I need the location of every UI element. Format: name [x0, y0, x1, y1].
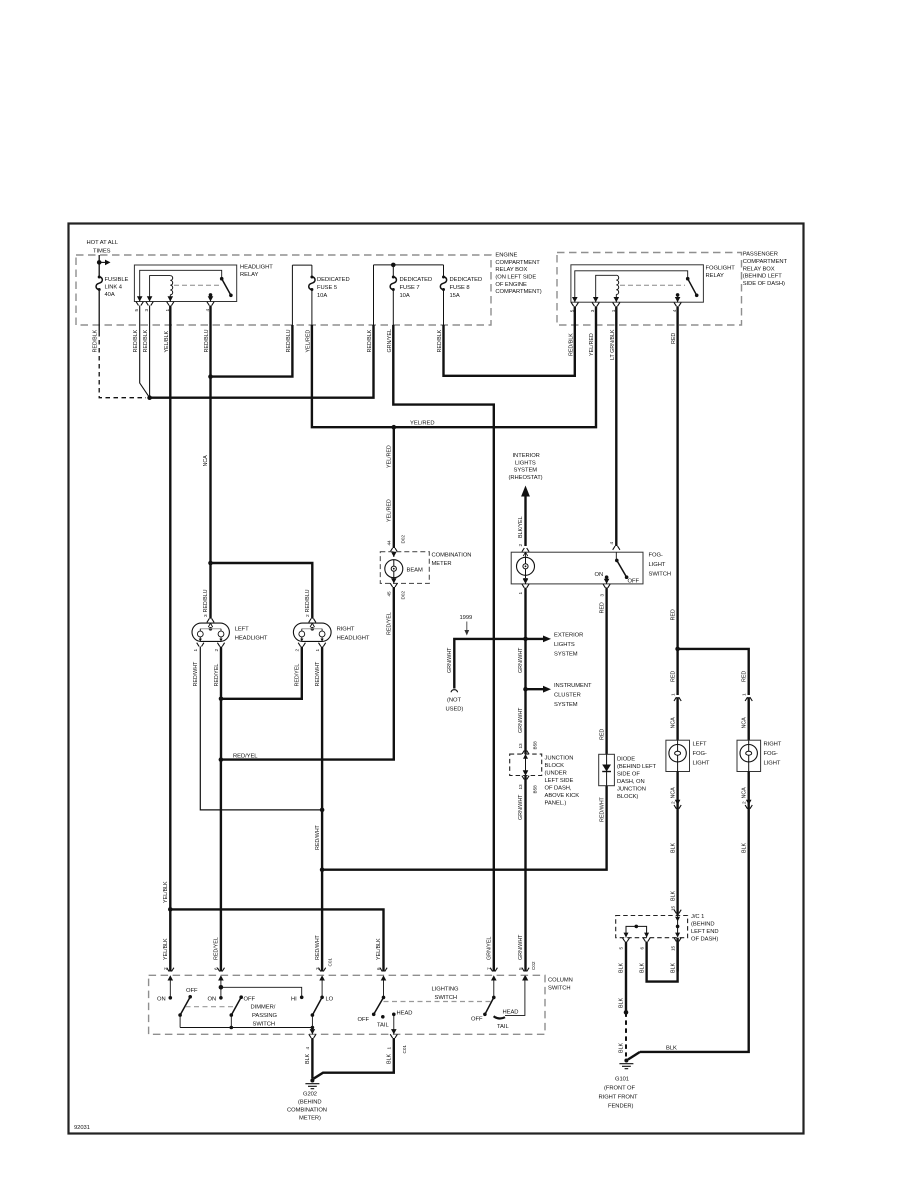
svg-text:BLK: BLK — [619, 963, 625, 973]
wire link to HI contact — [221, 987, 302, 997]
svg-text:DEDICATED: DEDICATED — [317, 277, 350, 283]
node junction exterior lights — [523, 637, 528, 642]
svg-text:HEAD: HEAD — [503, 1010, 519, 1016]
svg-text:2: 2 — [163, 967, 168, 970]
J/C1 internal jumper pins 5-6 — [626, 926, 647, 937]
svg-text:GRN/YEL: GRN/YEL — [387, 329, 393, 352]
svg-text:1: 1 — [165, 309, 170, 312]
svg-text:LIGHTS: LIGHTS — [554, 642, 575, 648]
wire YEL/RED fuse5 to foglight relay pin3 — [312, 306, 596, 427]
combination meter pin 45 D02 — [393, 578, 395, 584]
left headlight — [192, 623, 229, 641]
wire RED labels above fog pins — [670, 671, 747, 682]
wire RED/YEL down to column switch pin 6 — [220, 760, 222, 972]
tail-head bridge contact — [494, 1016, 505, 1018]
svg-text:DEDICATED: DEDICATED — [400, 277, 433, 283]
svg-text:BLK/YEL: BLK/YEL — [518, 516, 524, 538]
svg-text:RED/BLK: RED/BLK — [133, 329, 139, 352]
junction block (dashed) — [510, 754, 542, 775]
J/C 1 (dashed) — [616, 916, 688, 938]
svg-text:FOG-: FOG- — [693, 751, 707, 757]
svg-text:RIGHT: RIGHT — [337, 627, 355, 633]
dimmer sw1: ON contact from pin 2 — [169, 981, 171, 998]
svg-text:2: 2 — [214, 649, 219, 652]
svg-text:15A: 15A — [450, 293, 460, 299]
svg-text:LIGHTS: LIGHTS — [515, 460, 536, 466]
svg-text:FUSE 7: FUSE 7 — [400, 285, 420, 291]
wire RED/WHT branch to fog switch ON contact — [322, 588, 606, 870]
wire NCA left foglight — [676, 697, 678, 740]
svg-text:BLK: BLK — [741, 843, 747, 853]
svg-text:TIMES: TIMES — [93, 249, 111, 255]
svg-text:CLUSTER: CLUSTER — [554, 693, 581, 699]
left foglight pin 2 — [670, 787, 676, 799]
svg-text:FOG-: FOG- — [764, 751, 778, 757]
svg-text:40A: 40A — [105, 292, 115, 298]
svg-text:RED: RED — [670, 609, 676, 620]
svg-text:FOGLIGHT: FOGLIGHT — [706, 266, 736, 272]
svg-text:ON: ON — [595, 572, 604, 578]
svg-text:15: 15 — [670, 905, 675, 911]
svg-text:HEADLIGHT: HEADLIGHT — [235, 636, 268, 642]
headlight relay pins 5 3 1 4 — [137, 296, 143, 301]
dedicated fuse 7 / fuse 8 bridge — [374, 265, 444, 325]
svg-text:DASH, ON: DASH, ON — [617, 779, 645, 785]
dedicated fuse 7 — [390, 276, 396, 292]
coil foglight relay — [616, 275, 618, 294]
svg-text:OFF: OFF — [471, 1017, 483, 1023]
svg-text:C01: C01 — [402, 1045, 407, 1054]
junction block pin 13 B58 top — [522, 751, 529, 755]
svg-text:1: 1 — [670, 693, 675, 696]
node RED branch to right foglight — [675, 647, 680, 652]
left headlight pin 3 — [207, 619, 214, 623]
svg-text:C01: C01 — [328, 958, 333, 967]
svg-text:HI: HI — [291, 997, 297, 1003]
svg-text:YEL/BLK: YEL/BLK — [164, 331, 170, 353]
svg-text:RED/BLU: RED/BLU — [286, 329, 292, 352]
svg-text:BLK: BLK — [639, 963, 645, 973]
svg-text:3: 3 — [590, 309, 595, 312]
wire RED foglight relay pin4 down — [676, 306, 678, 695]
wire YEL/BLK branch to lighting switch pin 6 — [170, 909, 383, 971]
dedicated fuse 5 assembly — [292, 265, 312, 325]
svg-text:1: 1 — [315, 649, 320, 652]
node junction YEL/BLK — [168, 907, 173, 912]
coil headlight relay — [170, 276, 172, 295]
svg-text:G101: G101 — [615, 1077, 629, 1083]
svg-text:FUSE 5: FUSE 5 — [317, 285, 337, 291]
svg-text:LIGHT: LIGHT — [764, 761, 781, 767]
svg-text:5: 5 — [569, 309, 574, 312]
svg-text:YEL/RED: YEL/RED — [305, 330, 311, 353]
svg-text:92031: 92031 — [74, 1125, 90, 1131]
ground G101 — [619, 1059, 633, 1069]
wire YEL/RED junction to combination meter — [393, 427, 395, 548]
wire labels row under engine box — [93, 329, 677, 360]
svg-text:D02: D02 — [401, 535, 406, 544]
svg-text:DEDICATED: DEDICATED — [450, 277, 483, 283]
wire GRN/WHT fog switch pin1 down — [524, 588, 526, 972]
fog switch lever — [615, 552, 617, 559]
svg-text:OF ENGINE: OF ENGINE — [495, 282, 527, 288]
svg-text:SWITCH: SWITCH — [253, 1022, 276, 1028]
svg-text:INTERIOR: INTERIOR — [513, 453, 540, 459]
svg-text:GRN/WHT: GRN/WHT — [518, 934, 524, 960]
node branch arrow — [97, 260, 102, 265]
svg-text:1: 1 — [741, 693, 746, 696]
svg-text:RED: RED — [599, 602, 605, 613]
svg-text:RELAY BOX: RELAY BOX — [495, 267, 527, 273]
svg-text:RELAY: RELAY — [240, 272, 259, 278]
border frame — [69, 224, 804, 1134]
svg-text:45: 45 — [387, 591, 392, 597]
mechanical link lighting — [384, 1001, 494, 1003]
wire RED/BLK fuse8 to foglight relay pin5 — [444, 306, 575, 376]
svg-text:COMPARTMENT: COMPARTMENT — [743, 259, 788, 265]
svg-text:JUNCTION: JUNCTION — [617, 787, 646, 793]
svg-text:SYSTEM: SYSTEM — [514, 468, 538, 474]
junction block pin 13 B58 bottom — [523, 770, 529, 775]
svg-text:LIGHTING: LIGHTING — [432, 987, 460, 993]
svg-text:(ON LEFT SIDE: (ON LEFT SIDE — [495, 275, 536, 281]
svg-text:SWITCH: SWITCH — [649, 572, 672, 578]
svg-text:2: 2 — [741, 801, 746, 804]
svg-text:LIGHT: LIGHT — [693, 761, 710, 767]
svg-text:(UNDER: (UNDER — [545, 771, 567, 777]
svg-text:RELAY: RELAY — [706, 273, 725, 279]
svg-text:3: 3 — [599, 594, 604, 597]
svg-text:LEFT: LEFT — [235, 627, 249, 633]
svg-text:METER): METER) — [299, 1116, 321, 1122]
J/C 1 pin 15 top — [674, 910, 681, 914]
svg-text:(BEHIND LEFT: (BEHIND LEFT — [743, 274, 783, 280]
svg-text:SIDE OF DASH): SIDE OF DASH) — [743, 281, 785, 287]
wire labels headlight drops — [193, 455, 321, 687]
J/C1 internal pin15 — [677, 916, 679, 935]
svg-text:J/C 1: J/C 1 — [691, 914, 704, 920]
svg-text:RED/WHT: RED/WHT — [315, 661, 321, 687]
svg-text:RED: RED — [599, 729, 605, 740]
node junction RED/YEL headlights — [219, 697, 224, 702]
column switch connector cups at top — [167, 968, 174, 972]
svg-text:4: 4 — [305, 1047, 310, 1050]
arrow INSTRUMENT CLUSTER SYSTEM — [526, 688, 544, 690]
svg-text:5: 5 — [619, 947, 624, 950]
svg-text:1: 1 — [387, 1047, 392, 1050]
svg-text:5: 5 — [134, 309, 139, 312]
svg-text:BLK: BLK — [619, 998, 625, 1008]
svg-text:B58: B58 — [532, 741, 537, 750]
wire RED/BLU relay pin4 down to left headlight — [209, 306, 211, 619]
node junction RED/WHT — [320, 808, 325, 813]
node junction RED/BLK — [147, 395, 152, 400]
svg-text:BLK: BLK — [305, 1054, 311, 1064]
svg-text:OF DASH,: OF DASH, — [545, 786, 572, 792]
svg-text:SYSTEM: SYSTEM — [554, 652, 578, 658]
svg-text:BLK: BLK — [666, 1046, 677, 1052]
foglight relay U2 — [571, 265, 704, 302]
svg-text:OF DASH): OF DASH) — [691, 937, 718, 943]
svg-text:YEL/RED: YEL/RED — [589, 333, 595, 356]
svg-text:OFF: OFF — [244, 997, 256, 1003]
svg-text:2: 2 — [518, 544, 523, 547]
ground G202 — [305, 1079, 319, 1089]
svg-text:HOT AT ALL: HOT AT ALL — [87, 240, 119, 246]
svg-text:PANEL.): PANEL.) — [545, 801, 567, 807]
wire LT GRN/BLK foglight relay pin1 to fog switch — [615, 306, 617, 546]
wire BLK pin1 to G202 — [314, 1038, 394, 1079]
svg-text:RED/WHT: RED/WHT — [193, 661, 199, 687]
svg-text:BLK: BLK — [670, 843, 676, 853]
svg-text:LT GRN/BLK: LT GRN/BLK — [610, 329, 616, 360]
dedicated fuse 8 — [440, 276, 446, 292]
node junction YEL/RED — [392, 425, 397, 430]
svg-text:HEADLIGHT: HEADLIGHT — [240, 265, 273, 271]
svg-text:ABOVE KICK: ABOVE KICK — [545, 793, 580, 799]
svg-text:C02: C02 — [531, 961, 536, 970]
svg-text:COMBINATION: COMBINATION — [287, 1108, 327, 1114]
wire RED/WHT left headlight pin1 — [200, 647, 322, 810]
arrow EXTERIOR LIGHTS SYSTEM — [526, 638, 544, 640]
wire RED to right foglight — [678, 649, 749, 695]
svg-text:RED/BLU: RED/BLU — [204, 329, 210, 352]
svg-text:OFF: OFF — [358, 1017, 370, 1023]
svg-text:JUNCTION: JUNCTION — [545, 756, 574, 762]
svg-text:LEFT: LEFT — [693, 742, 707, 748]
svg-text:OFF: OFF — [186, 988, 198, 994]
engine compartment relay box (dashed) — [76, 255, 491, 325]
svg-text:BLK: BLK — [619, 1043, 625, 1053]
column switch exits pins 4 / 1 C01 — [310, 1029, 316, 1034]
foglight relay internals — [575, 271, 688, 302]
svg-text:GRN/WHT: GRN/WHT — [518, 794, 524, 820]
svg-text:1: 1 — [518, 592, 523, 595]
svg-text:GRN/WHT: GRN/WHT — [518, 707, 524, 733]
svg-text:10A: 10A — [400, 293, 410, 299]
wire NCA right foglight — [748, 697, 750, 740]
svg-text:RED/WHT: RED/WHT — [315, 934, 321, 960]
svg-text:RED/WHT: RED/WHT — [599, 796, 605, 822]
node HOT AT ALL TIMES — [87, 240, 119, 255]
svg-text:RED/YEL: RED/YEL — [295, 664, 301, 687]
svg-text:COMPARTMENT): COMPARTMENT) — [495, 289, 541, 295]
svg-text:GRN/WHT: GRN/WHT — [447, 647, 453, 673]
svg-text:RELAY BOX: RELAY BOX — [743, 266, 775, 272]
svg-text:HEAD: HEAD — [397, 1011, 413, 1017]
svg-text:LEFT END: LEFT END — [691, 929, 719, 935]
fog switch ON contact — [605, 575, 609, 579]
svg-text:HEADLIGHT: HEADLIGHT — [337, 636, 370, 642]
svg-text:RED: RED — [671, 333, 677, 344]
svg-text:G202: G202 — [303, 1092, 317, 1098]
svg-text:(RHEOSTAT): (RHEOSTAT) — [509, 475, 543, 481]
svg-text:TAIL: TAIL — [377, 1023, 389, 1029]
svg-text:FOG-: FOG- — [649, 553, 663, 559]
svg-text:YEL/BLK: YEL/BLK — [163, 881, 169, 903]
svg-text:YEL/BLK: YEL/BLK — [163, 938, 169, 960]
svg-text:YEL/RED: YEL/RED — [386, 499, 392, 522]
svg-text:BLOCK): BLOCK) — [617, 794, 638, 800]
svg-text:BEAM: BEAM — [407, 568, 423, 574]
fusible link 4 wire — [98, 255, 100, 276]
svg-text:FENDER): FENDER) — [608, 1104, 634, 1110]
svg-text:15: 15 — [670, 945, 675, 951]
svg-text:YEL/BLK: YEL/BLK — [376, 938, 382, 960]
svg-text:RED/BLK: RED/BLK — [568, 333, 574, 356]
svg-text:LINK 4: LINK 4 — [105, 285, 123, 291]
svg-text:SWITCH: SWITCH — [548, 986, 571, 992]
svg-text:NCA: NCA — [670, 717, 676, 729]
fog switch pins 1,3 — [523, 579, 529, 584]
dimmer sw2: passing — [220, 981, 222, 998]
svg-text:RED/BLK: RED/BLK — [93, 329, 99, 352]
passenger compartment relay box (dashed) — [557, 253, 742, 326]
lighting switch sec1 — [383, 981, 385, 998]
svg-text:1: 1 — [611, 309, 616, 312]
J/C1 bottom pins 5,6,15 — [622, 938, 629, 942]
svg-text:NCA: NCA — [741, 787, 747, 799]
right foglight pin 1 — [745, 697, 752, 701]
svg-text:B58: B58 — [532, 785, 537, 794]
svg-text:13: 13 — [518, 743, 523, 749]
svg-text:RED/YEL: RED/YEL — [233, 753, 258, 759]
right foglight pin 2 — [741, 787, 747, 799]
left foglight pin 1 — [674, 697, 681, 701]
lamp in fog switch — [523, 552, 527, 557]
mechanical link dimmer — [186, 1006, 236, 1008]
svg-text:RED/BLK: RED/BLK — [437, 329, 443, 352]
svg-text:YEL/RED: YEL/RED — [386, 445, 392, 468]
lighting switch sec2 — [493, 981, 495, 998]
svg-text:RIGHT: RIGHT — [764, 742, 782, 748]
wire BLK right fog to ground junction — [628, 1052, 640, 1060]
svg-text:GRN/WHT: GRN/WHT — [518, 647, 524, 673]
interior lights system arrow — [509, 453, 543, 481]
node junction RED/WHT to fog switch net — [320, 867, 325, 872]
svg-text:4: 4 — [609, 542, 614, 545]
svg-text:2: 2 — [670, 801, 675, 804]
svg-text:YEL/RED: YEL/RED — [410, 421, 434, 427]
wire RED/WHT right headlight pin1 down — [321, 647, 323, 972]
svg-text:4: 4 — [205, 309, 210, 312]
svg-text:RED/BLK: RED/BLK — [367, 329, 373, 352]
svg-text:COMPARTMENT: COMPARTMENT — [495, 260, 540, 266]
wire RED/BLU from fuse5 left leg — [211, 325, 293, 377]
headlight relay U1 — [134, 265, 236, 302]
wire RED/BLK relay pin5 — [140, 306, 150, 398]
wire BLK pin4 to G202 — [311, 1038, 313, 1079]
svg-text:(FRONT OF: (FRONT OF — [604, 1086, 636, 1092]
svg-text:3: 3 — [203, 614, 208, 617]
svg-text:RED: RED — [670, 671, 676, 682]
svg-text:TAIL: TAIL — [497, 1024, 509, 1030]
combination meter (dashed) — [380, 552, 429, 584]
svg-text:LIGHT: LIGHT — [649, 562, 666, 568]
dimmer sw1 lever — [178, 1013, 182, 1017]
svg-text:DIMMER/: DIMMER/ — [251, 1005, 276, 1011]
svg-text:1: 1 — [193, 649, 198, 652]
node junction RED/BLU — [208, 374, 213, 379]
svg-text:RED/YEL: RED/YEL — [386, 612, 392, 635]
svg-text:METER: METER — [432, 561, 452, 567]
headlight relay internals — [140, 270, 222, 301]
dimmer common bus — [180, 1027, 312, 1029]
svg-text:BLK: BLK — [670, 963, 676, 973]
right headlight pins 2,1 — [298, 643, 305, 647]
svg-text:3: 3 — [144, 309, 149, 312]
right fog light L2 — [737, 740, 761, 771]
svg-text:PASSENGER: PASSENGER — [743, 252, 778, 258]
svg-text:1999: 1999 — [460, 615, 473, 621]
lamp BEAM — [385, 560, 403, 578]
svg-text:PASSING: PASSING — [252, 1013, 278, 1019]
svg-text:6: 6 — [639, 947, 644, 950]
svg-text:USED): USED) — [446, 707, 464, 713]
svg-text:LEFT SIDE: LEFT SIDE — [545, 778, 574, 784]
diode (behind left side of dash, on junction block) — [599, 754, 615, 785]
svg-text:RED/BLU: RED/BLU — [305, 589, 311, 612]
svg-text:4: 4 — [672, 309, 677, 312]
wire YEL/BLK relay pin1 down — [169, 306, 171, 972]
svg-text:(NOT: (NOT — [447, 698, 461, 704]
svg-text:7: 7 — [487, 967, 492, 970]
wire RED/BLK relay pin3 — [149, 306, 151, 398]
wire RED/YEL tie to right headlight — [221, 647, 302, 699]
svg-text:FUSIBLE: FUSIBLE — [105, 277, 129, 283]
fusible link 4 — [96, 276, 102, 292]
svg-text:RED: RED — [741, 671, 747, 682]
svg-text:GRN/YEL: GRN/YEL — [487, 937, 493, 960]
dimmer sw3: HI/LO — [300, 996, 304, 1000]
svg-text:BLK: BLK — [670, 891, 676, 901]
wire RED/BLK bus to fuses 7/8 — [150, 325, 374, 398]
svg-text:ON: ON — [208, 997, 217, 1003]
foglight relay pins 5 3 1 4 — [572, 297, 578, 302]
node junction RED/YEL — [219, 757, 224, 762]
wire GRN/YEL fuse7 to column switch — [393, 325, 494, 972]
svg-text:SYSTEM: SYSTEM — [554, 702, 578, 708]
svg-text:COMBINATION: COMBINATION — [432, 553, 472, 559]
svg-text:D02: D02 — [401, 591, 406, 600]
svg-text:DIODE: DIODE — [617, 757, 635, 763]
svg-text:RED/BLU: RED/BLU — [203, 589, 209, 612]
wire RED/YEL left headlight pin2 — [220, 647, 222, 760]
svg-text:NCA: NCA — [670, 787, 676, 799]
wire RED/YEL meter to headlight high-beam net — [221, 587, 394, 760]
svg-text:LO: LO — [326, 997, 334, 1003]
svg-text:6: 6 — [376, 967, 381, 970]
svg-text:RED/YEL: RED/YEL — [214, 937, 220, 960]
svg-text:5: 5 — [518, 967, 523, 970]
svg-text:OFF: OFF — [628, 579, 640, 585]
svg-text:SIDE OF: SIDE OF — [617, 772, 640, 778]
pin arrows into box — [168, 975, 174, 980]
svg-text:RED/YEL: RED/YEL — [214, 664, 220, 687]
svg-text:FUSE 8: FUSE 8 — [450, 285, 470, 291]
svg-text:RIGHT FRONT: RIGHT FRONT — [599, 1095, 638, 1101]
svg-text:SWITCH: SWITCH — [435, 995, 458, 1001]
svg-text:13: 13 — [518, 784, 523, 790]
svg-text:COLUMN: COLUMN — [548, 978, 573, 984]
right headlight pin 2 — [309, 619, 316, 623]
svg-text:6: 6 — [214, 967, 219, 970]
node branch to right headlight — [208, 561, 213, 566]
svg-text:10A: 10A — [317, 293, 327, 299]
svg-text:(BEHIND LEFT: (BEHIND LEFT — [617, 764, 657, 770]
right headlight — [293, 623, 331, 641]
svg-text:3: 3 — [315, 967, 320, 970]
